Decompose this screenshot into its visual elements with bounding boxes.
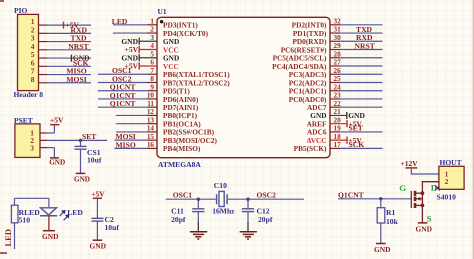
wire PIO pin 3 <box>47 41 91 43</box>
svg-text:C12: C12 <box>257 206 270 215</box>
wire pin 16 <box>115 147 148 149</box>
wire source to GND <box>421 205 423 222</box>
wire pin 23 <box>340 98 383 100</box>
wire pin 8 <box>98 81 147 83</box>
wire CS1 to GND <box>80 149 82 173</box>
svg-text:10uf: 10uf <box>87 155 102 164</box>
wire C12 to ground <box>247 212 249 232</box>
wire +5V to C2 <box>96 198 98 218</box>
LED D1 triangle <box>41 208 57 215</box>
ground GND at CS1 <box>74 173 90 183</box>
wire pin 9 <box>98 90 147 92</box>
pin 22 stub <box>330 106 340 108</box>
pin 29 stub <box>330 49 340 51</box>
power +5V at PSET <box>50 116 64 125</box>
wire RLED bottom LED net <box>14 223 16 249</box>
power GND at IC pin 3 <box>121 37 157 46</box>
wire OSC1 <box>166 198 217 200</box>
junction drain rail <box>421 191 425 195</box>
pin 31 stub <box>330 32 340 34</box>
pin 9 stub <box>147 90 157 92</box>
svg-text:OSC1: OSC1 <box>173 191 193 200</box>
wire +12V to HOUT pin 1 <box>411 168 439 174</box>
wire LED cathode to GND <box>48 216 50 231</box>
svg-text:GND: GND <box>90 241 106 250</box>
wire pin 13 <box>116 123 147 125</box>
transistor Q1 arrow <box>417 197 421 201</box>
svg-text:SET: SET <box>82 132 96 141</box>
svg-text:GND: GND <box>416 225 432 234</box>
junction OSC2 node <box>246 198 249 201</box>
power +12V <box>401 159 419 168</box>
capacitor C11 <box>192 209 204 212</box>
connector PIO pin 6 <box>39 65 48 67</box>
svg-text:SET: SET <box>349 124 363 133</box>
svg-text:S: S <box>427 213 432 223</box>
connector HOUT body <box>439 166 464 189</box>
wire C11 to ground <box>197 212 199 232</box>
pin 17 stub <box>330 147 340 149</box>
wire LED to pin 1 <box>113 24 147 26</box>
wire PIO pin 8 <box>47 82 91 84</box>
wire PSET pin1 to +5V <box>47 125 54 133</box>
svg-text:C10: C10 <box>214 181 227 190</box>
wire to R1 <box>380 199 382 208</box>
svg-text:16Mhz: 16Mhz <box>212 207 235 216</box>
wire pin 26 <box>340 73 383 75</box>
pin 19 stub <box>330 131 340 133</box>
connector PIO pin 2 <box>39 32 48 34</box>
ground GND at C2 <box>90 240 106 250</box>
svg-text:GND: GND <box>49 158 65 166</box>
connector PIO pin 1 <box>39 24 48 26</box>
pin 15 stub <box>147 139 157 141</box>
svg-text:ATMEGA8A: ATMEGA8A <box>158 160 201 169</box>
crystal C10 <box>217 191 228 206</box>
transistor Q1 channel segment drain <box>414 191 417 196</box>
svg-text:C11: C11 <box>171 206 184 215</box>
pin 16 stub <box>147 147 157 149</box>
earth ground at C11 <box>190 232 207 239</box>
connector PIO pin 3 <box>39 41 48 43</box>
power +5V at IC pin 6 <box>125 62 157 71</box>
wire pin 19 <box>340 131 383 133</box>
svg-text:20pf: 20pf <box>258 215 273 224</box>
svg-text:PB5(SCK): PB5(SCK) <box>294 144 327 153</box>
transistor Q1 drain stub <box>416 192 422 194</box>
pin 14 stub <box>147 131 157 133</box>
wire drain to HOUT pin 2 <box>422 182 439 194</box>
no-ERC cross at drain <box>435 185 440 190</box>
wire pin 24 <box>340 90 383 92</box>
LED arrows <box>60 211 69 221</box>
power GND at IC pin 5 <box>121 53 157 62</box>
resistor RLED <box>11 205 18 223</box>
pin 23 stub <box>330 98 340 100</box>
svg-text:Header 8: Header 8 <box>14 90 44 99</box>
svg-text:NRST: NRST <box>355 41 375 50</box>
wire pin 32 <box>340 24 383 26</box>
transistor Q1 channel segment bulk <box>414 197 417 202</box>
connector PIO pin 8 <box>39 82 48 84</box>
connector PIO pin 7 <box>39 74 48 76</box>
wire SET to CS1 <box>80 140 82 146</box>
capacitor C2 <box>91 218 103 221</box>
connector PSET pin 3 <box>40 147 47 149</box>
LED D1 cathode bar <box>40 215 57 217</box>
IC U1 pin1 marker dot <box>160 20 163 23</box>
ground GND at LED <box>42 231 58 242</box>
pin 8 stub <box>147 81 157 83</box>
pin 24 stub <box>330 90 340 92</box>
wire pin 31 <box>340 32 383 34</box>
power +5V at IC pin 4 <box>125 45 157 54</box>
svg-text:10uf: 10uf <box>105 223 120 232</box>
connector PSET pin 2 <box>40 139 47 141</box>
pin 10 stub <box>147 98 157 100</box>
transistor Q1 gate bar <box>410 191 412 208</box>
svg-text:8: 8 <box>31 75 35 84</box>
wire PIO pin 4 <box>47 49 91 51</box>
wire PIO pin 5 <box>47 57 91 59</box>
junction OSC1 node <box>197 198 200 201</box>
svg-text:GND: GND <box>42 232 58 241</box>
wire PIO pin 2 <box>47 32 91 34</box>
svg-text:U1: U1 <box>158 7 167 16</box>
pin 25 stub <box>330 81 340 83</box>
svg-text:10k: 10k <box>386 217 399 226</box>
svg-text:NRST: NRST <box>68 42 88 51</box>
transistor Q1 channel segment source <box>414 203 417 208</box>
svg-text:S4010: S4010 <box>437 193 457 202</box>
wire PIO pin 1 <box>47 24 91 26</box>
wire pin 27 <box>340 65 383 67</box>
connector PIO pin 4 <box>39 49 48 51</box>
wire pin 22 <box>340 106 383 108</box>
capacitor CS1 <box>75 146 87 149</box>
junction source rail <box>421 204 425 208</box>
ground GND at Q1 source <box>416 223 432 234</box>
wire pin 17 <box>340 147 383 149</box>
pin 28 stub <box>330 57 340 59</box>
wire pin 29 <box>340 49 383 51</box>
pin 7 stub <box>147 73 157 75</box>
ground GND at PSET <box>49 158 65 166</box>
transistor Q1 source stub <box>416 204 422 206</box>
pin 12 stub <box>147 114 157 116</box>
wire pin 30 <box>340 40 383 42</box>
connector PIO pin 5 <box>39 57 48 59</box>
wire OSC2 to C12 <box>247 199 249 208</box>
svg-text:+12V: +12V <box>401 159 419 168</box>
wire pin 2 <box>113 32 147 34</box>
resistor R1 <box>377 208 385 223</box>
pin 26 stub <box>330 73 340 75</box>
svg-text:2: 2 <box>445 177 449 186</box>
svg-text:PIO: PIO <box>14 6 28 15</box>
svg-text:OSC2: OSC2 <box>257 191 277 200</box>
svg-text:R1: R1 <box>386 208 395 217</box>
svg-text:+5V: +5V <box>50 116 64 125</box>
power GND on PIO pin 5 <box>71 54 90 63</box>
capacitor C12 <box>242 209 254 212</box>
pin 30 stub <box>330 40 340 42</box>
svg-text:HOUT: HOUT <box>440 158 462 167</box>
wire pin 28 <box>340 57 383 59</box>
power GND at IC pin 21 <box>330 111 365 120</box>
svg-text:G: G <box>399 183 406 193</box>
pin 1 stub <box>147 24 157 26</box>
svg-text:SCK: SCK <box>349 140 365 149</box>
wire pin 10 <box>98 98 147 100</box>
wire PIO pin 6 <box>47 65 91 67</box>
wire R1 to GND <box>380 223 382 243</box>
svg-text:20pf: 20pf <box>171 215 186 224</box>
connector PSET body <box>15 124 40 157</box>
wire Q1CNT to gate <box>338 198 411 200</box>
wire RLED top to LED anode <box>15 198 49 207</box>
svg-text:3: 3 <box>30 143 34 152</box>
power +5V on PIO pin 1 <box>64 20 80 29</box>
earth ground at C12 <box>240 232 257 239</box>
wire pin 15 <box>115 139 148 141</box>
wire SET net <box>47 139 107 141</box>
svg-text:PB4(MISO): PB4(MISO) <box>163 144 201 153</box>
wire pin 12 <box>116 114 147 116</box>
transistor Q1 bulk rail <box>421 193 423 205</box>
wire pin 25 <box>340 81 383 83</box>
svg-text:MOSI: MOSI <box>66 75 86 84</box>
wire pin 14 <box>116 131 147 133</box>
wire C2 to GND <box>96 221 98 240</box>
svg-text:LED: LED <box>67 208 83 217</box>
wire PSET pin3 to GND <box>47 148 54 158</box>
ground GND at R1 <box>374 244 390 255</box>
svg-text:510: 510 <box>19 216 31 225</box>
IC U1 body <box>157 17 330 157</box>
power +5V at IC pin 20 <box>330 119 362 128</box>
svg-text:+5V: +5V <box>91 189 105 198</box>
connector PSET pin 1 <box>40 132 47 134</box>
pin 11 stub <box>147 106 157 108</box>
power +5V at IC pin 18 <box>330 136 362 145</box>
wire pin 11 <box>98 106 147 108</box>
wire pin 7 <box>98 73 147 75</box>
svg-text:LED: LED <box>3 229 13 246</box>
pin 13 stub <box>147 123 157 125</box>
pin 27 stub <box>330 65 340 67</box>
power +5V at C2 <box>91 189 105 198</box>
svg-text:GND: GND <box>74 176 90 184</box>
connector PIO body <box>18 14 39 90</box>
pin 32 stub <box>330 24 340 26</box>
svg-text:D: D <box>431 183 437 193</box>
pin 2 stub <box>147 32 157 34</box>
wire OSC2 <box>228 198 304 200</box>
wire OSC1 to C11 <box>197 199 199 208</box>
transistor Q1 bulk stub <box>416 198 422 200</box>
junction on SET net <box>79 139 82 142</box>
wire PIO pin 7 <box>47 74 91 76</box>
svg-text:GND: GND <box>374 245 390 254</box>
junction R1 node <box>379 197 382 200</box>
